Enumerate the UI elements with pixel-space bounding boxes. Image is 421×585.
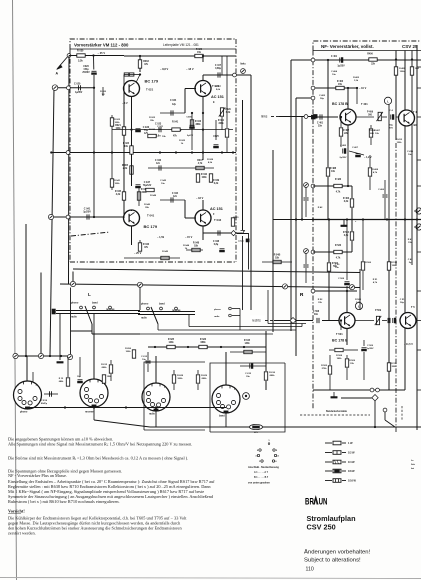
svg-text:0,68µ: 0,68µ bbox=[215, 68, 221, 70]
svg-text:P 409: P 409 bbox=[367, 111, 374, 114]
svg-text:BR: BR bbox=[305, 496, 314, 507]
svg-text:1/2 W: 1/2 W bbox=[348, 452, 355, 455]
svg-text:R 410: R 410 bbox=[369, 129, 376, 132]
svg-text:NF- Ververstärker, vollst.: NF- Ververstärker, vollst. bbox=[321, 44, 374, 49]
svg-text:~ 1,2 V: ~ 1,2 V bbox=[364, 156, 372, 159]
svg-text:1 W: 1 W bbox=[348, 442, 353, 445]
svg-text:10n: 10n bbox=[335, 267, 339, 269]
svg-text:120k: 120k bbox=[168, 342, 174, 344]
svg-text:R 043: R 043 bbox=[143, 243, 150, 246]
svg-text:R 408: R 408 bbox=[372, 168, 379, 171]
svg-text:~ 25 V: ~ 25 V bbox=[134, 252, 142, 255]
svg-text:12µ: 12µ bbox=[172, 104, 177, 106]
svg-text:3: 3 bbox=[234, 389, 235, 391]
svg-text:C 048: C 048 bbox=[213, 240, 220, 243]
svg-text:R 489: R 489 bbox=[399, 67, 406, 70]
svg-text:L: L bbox=[387, 99, 389, 103]
svg-text:C 508: C 508 bbox=[338, 278, 345, 280]
svg-text:C 406: C 406 bbox=[378, 188, 385, 191]
svg-text:C E10: C E10 bbox=[41, 400, 48, 402]
svg-text:Änderungen vorbehalten!: Änderungen vorbehalten! bbox=[304, 549, 371, 556]
svg-text:C 407: C 407 bbox=[352, 146, 359, 149]
svg-text:C 042: C 042 bbox=[160, 179, 167, 182]
svg-text:phono: phono bbox=[141, 303, 149, 306]
svg-text:Vorsicht!: Vorsicht! bbox=[8, 509, 25, 514]
svg-text:AC 151: AC 151 bbox=[211, 95, 224, 99]
svg-text:3,3k: 3,3k bbox=[78, 60, 83, 63]
svg-text:C 401: C 401 bbox=[331, 55, 338, 58]
svg-text:R 512: R 512 bbox=[391, 262, 398, 264]
svg-text:R 508: R 508 bbox=[336, 355, 343, 357]
svg-text:680k: 680k bbox=[270, 375, 276, 377]
svg-text:12n: 12n bbox=[156, 163, 161, 165]
svg-text:Leiterplatte VM 121 - 081: Leiterplatte VM 121 - 081 bbox=[163, 43, 199, 47]
svg-text:C005: C005 bbox=[186, 117, 192, 119]
svg-text:33n: 33n bbox=[246, 376, 250, 378]
svg-text:NF - Vorverstärker Plus an Ma: NF - Vorverstärker Plus an Masse. bbox=[8, 473, 67, 478]
svg-text:10n: 10n bbox=[142, 359, 146, 361]
svg-text:R 025: R 025 bbox=[179, 140, 186, 142]
svg-text:182k: 182k bbox=[337, 358, 343, 360]
svg-text:3: 3 bbox=[164, 387, 165, 389]
svg-text:band: band bbox=[159, 303, 165, 306]
svg-text:120k: 120k bbox=[400, 71, 406, 73]
svg-text:C 404: C 404 bbox=[331, 70, 338, 73]
svg-text:2µ/35V: 2µ/35V bbox=[340, 157, 348, 159]
svg-text:1: 1 bbox=[84, 383, 85, 385]
svg-text:R 023: R 023 bbox=[114, 119, 121, 121]
svg-text:R 045: R 045 bbox=[162, 250, 169, 253]
svg-text:680k: 680k bbox=[202, 378, 208, 380]
svg-text:~ 11,5 V: ~ 11,5 V bbox=[404, 343, 413, 346]
svg-text:1/16 W: 1/16 W bbox=[348, 480, 357, 483]
svg-text:270k: 270k bbox=[322, 368, 328, 370]
svg-text:C 410: C 410 bbox=[407, 150, 414, 153]
svg-text:25/30V: 25/30V bbox=[82, 72, 90, 74]
svg-text:R 42: R 42 bbox=[318, 206, 323, 209]
svg-text:C 044: C 044 bbox=[172, 192, 179, 195]
svg-text:100k: 100k bbox=[115, 122, 121, 124]
svg-text:CSV 25: CSV 25 bbox=[402, 44, 418, 49]
svg-text:reserve: reserve bbox=[172, 309, 181, 312]
svg-text:R 504: R 504 bbox=[343, 231, 350, 234]
svg-text:~ 18 V: ~ 18 V bbox=[196, 197, 204, 200]
svg-text:zerstört werden.: zerstört werden. bbox=[8, 531, 36, 536]
svg-text:Bandunterkontakte: Bandunterkontakte bbox=[326, 410, 348, 413]
svg-text:reserve: reserve bbox=[85, 411, 94, 414]
svg-text:~ 4 V: ~ 4 V bbox=[122, 102, 128, 105]
svg-text:10n: 10n bbox=[332, 74, 336, 76]
svg-text:100k: 100k bbox=[201, 177, 207, 179]
svg-text:band: band bbox=[219, 415, 225, 418]
svg-text:R 51: R 51 bbox=[373, 279, 378, 281]
svg-text:R 505: R 505 bbox=[321, 365, 328, 367]
svg-text:2,2k: 2,2k bbox=[116, 194, 121, 196]
svg-text:Subject to alterations!: Subject to alterations! bbox=[304, 558, 361, 564]
svg-text:70µ/12V: 70µ/12V bbox=[143, 185, 152, 187]
svg-text:T 041: T 041 bbox=[147, 214, 155, 218]
svg-text:C 020: C 020 bbox=[74, 83, 81, 86]
svg-text:33n: 33n bbox=[314, 314, 319, 316]
svg-text:330k: 330k bbox=[141, 192, 147, 194]
svg-text:C 615: C 615 bbox=[245, 373, 252, 375]
svg-text:T 5: T 5 bbox=[411, 305, 415, 309]
svg-text:R 426: R 426 bbox=[335, 178, 342, 181]
svg-text:0µ/CV: 0µ/CV bbox=[187, 135, 194, 137]
svg-text:10n: 10n bbox=[158, 129, 162, 131]
svg-text:0,8µ: 0,8µ bbox=[214, 244, 219, 246]
svg-text:C 021: C 021 bbox=[157, 126, 164, 128]
svg-text:C 42: C 42 bbox=[408, 258, 413, 261]
svg-text:680k: 680k bbox=[102, 367, 108, 369]
svg-text:BC 179: BC 179 bbox=[144, 224, 158, 229]
svg-text:A 1 . . . . . A 7: A 1 . . . . . A 7 bbox=[254, 471, 269, 474]
svg-text:~ 8,8 V: ~ 8,8 V bbox=[160, 67, 169, 71]
svg-text:radio: radio bbox=[71, 316, 77, 319]
svg-text:1/4 W: 1/4 W bbox=[348, 461, 355, 464]
svg-text:R 048: R 048 bbox=[193, 242, 200, 245]
svg-text:von unten gesehen: von unten gesehen bbox=[248, 482, 270, 485]
svg-text:R 626: R 626 bbox=[200, 339, 207, 341]
svg-text:T 501: T 501 bbox=[336, 332, 343, 336]
svg-text:T 401: T 401 bbox=[361, 102, 368, 106]
svg-text:C 107: C 107 bbox=[215, 65, 222, 67]
svg-text:T 021: T 021 bbox=[146, 87, 154, 91]
svg-text:150µ: 150µ bbox=[83, 69, 89, 71]
svg-text:C 405: C 405 bbox=[319, 94, 326, 97]
svg-text:4,7k: 4,7k bbox=[198, 162, 203, 165]
svg-text:T 042: T 042 bbox=[214, 218, 222, 222]
svg-text:1: 1 bbox=[146, 387, 147, 389]
svg-text:R 41: R 41 bbox=[408, 238, 413, 241]
svg-text:25V: 25V bbox=[389, 128, 393, 130]
svg-text:Stromlaufplan: Stromlaufplan bbox=[307, 514, 356, 523]
svg-text:120k: 120k bbox=[392, 265, 398, 267]
svg-text:Ruhestrom ( bei x ) mit R610 b: Ruhestrom ( bei x ) mit R610 bzw R710 no… bbox=[8, 499, 120, 504]
svg-text:9047p: 9047p bbox=[41, 402, 48, 405]
svg-text:L: L bbox=[88, 292, 91, 297]
svg-text:140k: 140k bbox=[244, 342, 250, 345]
svg-text:R 656: R 656 bbox=[125, 348, 132, 350]
svg-text:3,3k: 3,3k bbox=[344, 235, 349, 237]
svg-text:R 412: R 412 bbox=[396, 138, 403, 141]
svg-text:AC 151: AC 151 bbox=[210, 207, 223, 211]
svg-text:C E47: C E47 bbox=[144, 181, 151, 184]
svg-text:100k: 100k bbox=[115, 183, 121, 185]
svg-text:100k: 100k bbox=[126, 351, 132, 353]
svg-text:R 405: R 405 bbox=[353, 76, 360, 79]
svg-text:R 048: R 048 bbox=[150, 194, 157, 197]
svg-text:R 031: R 031 bbox=[218, 120, 225, 122]
svg-text:R 488: R 488 bbox=[330, 167, 337, 170]
svg-text:10n: 10n bbox=[161, 183, 165, 185]
svg-text:380k: 380k bbox=[195, 124, 201, 126]
svg-text:R 406: R 406 bbox=[343, 197, 350, 200]
svg-text:1: 1 bbox=[216, 389, 217, 391]
svg-text:R 629: R 629 bbox=[201, 375, 208, 377]
svg-text:R 616: R 616 bbox=[269, 372, 276, 374]
svg-text:R 407: R 407 bbox=[374, 129, 381, 132]
svg-text:phono: phono bbox=[71, 302, 79, 305]
svg-text:R 628: R 628 bbox=[177, 375, 184, 377]
svg-text:R 005: R 005 bbox=[122, 165, 129, 167]
svg-text:Vorverstärker VM 112 - 800: Vorverstärker VM 112 - 800 bbox=[74, 43, 129, 48]
svg-text:UN: UN bbox=[319, 496, 328, 507]
svg-text:R 044: R 044 bbox=[183, 244, 190, 247]
svg-text:links: links bbox=[261, 115, 268, 119]
svg-text:1µ/25V: 1µ/25V bbox=[83, 211, 91, 214]
svg-text:70µ: 70µ bbox=[144, 130, 149, 132]
svg-text:120k: 120k bbox=[397, 142, 403, 144]
svg-text:~ 15 V: ~ 15 V bbox=[185, 236, 193, 239]
svg-text:phono: phono bbox=[20, 411, 28, 414]
svg-text:R 049: R 049 bbox=[213, 179, 220, 182]
svg-text:330k: 330k bbox=[218, 123, 224, 125]
svg-text:3: 3 bbox=[36, 385, 37, 387]
svg-text:R 028: R 028 bbox=[207, 159, 214, 161]
svg-text:R 040: R 040 bbox=[144, 203, 151, 206]
svg-text:C 50: C 50 bbox=[335, 264, 340, 266]
svg-text:radio: radio bbox=[149, 413, 155, 416]
svg-text:volum: volum bbox=[238, 241, 244, 243]
svg-text:C 034: C 034 bbox=[170, 99, 177, 102]
svg-text:6,2k: 6,2k bbox=[226, 112, 231, 114]
svg-text:R 022: R 022 bbox=[149, 117, 156, 119]
svg-text:R 625: R 625 bbox=[168, 339, 175, 341]
svg-text:C 043: C 043 bbox=[155, 159, 162, 162]
svg-text:band: band bbox=[92, 302, 98, 305]
svg-text:4,7k: 4,7k bbox=[336, 257, 341, 260]
svg-text:~ 1,59: ~ 1,59 bbox=[157, 236, 165, 239]
svg-text:4,7k: 4,7k bbox=[336, 191, 341, 194]
svg-text:B 1 . . . . . B 7: B 1 . . . . . B 7 bbox=[254, 477, 269, 479]
svg-text:110: 110 bbox=[306, 566, 314, 572]
svg-text:R 106: R 106 bbox=[195, 121, 202, 123]
svg-text:R 615: R 615 bbox=[244, 340, 251, 342]
svg-text:BC 178 B: BC 178 B bbox=[332, 102, 348, 106]
svg-text:R 042: R 042 bbox=[201, 173, 208, 176]
svg-text:R 612: R 612 bbox=[101, 364, 108, 366]
svg-text:links: links bbox=[240, 63, 246, 66]
svg-text:R 041: R 041 bbox=[172, 121, 179, 124]
svg-text:P029: P029 bbox=[225, 109, 231, 111]
svg-text:R047: R047 bbox=[197, 159, 203, 162]
svg-text:C 482: C 482 bbox=[340, 144, 347, 147]
svg-text:R406: R406 bbox=[367, 53, 373, 56]
svg-text:P 509: P 509 bbox=[375, 310, 382, 312]
svg-text:R 503: R 503 bbox=[355, 299, 362, 301]
svg-text:680k: 680k bbox=[200, 342, 206, 344]
svg-text:R 403: R 403 bbox=[337, 80, 344, 83]
svg-text:BC 179: BC 179 bbox=[145, 79, 159, 84]
svg-text:radio: radio bbox=[141, 317, 147, 320]
svg-text:R 041: R 041 bbox=[114, 179, 121, 182]
svg-text:R031: R031 bbox=[233, 217, 239, 219]
svg-text:500k: 500k bbox=[178, 378, 184, 380]
svg-text:C 509: C 509 bbox=[367, 345, 374, 347]
svg-text:R 402: R 402 bbox=[343, 129, 350, 132]
svg-text:C026: C026 bbox=[83, 66, 89, 68]
svg-text:R 511: R 511 bbox=[391, 363, 397, 365]
svg-text:R 045: R 045 bbox=[115, 190, 122, 193]
svg-text:R 026: R 026 bbox=[196, 49, 203, 51]
svg-text:BC 178 B: BC 178 B bbox=[332, 339, 348, 343]
svg-text:1/8 W: 1/8 W bbox=[348, 470, 355, 473]
svg-text:C 612: C 612 bbox=[141, 356, 148, 358]
svg-text:radio: radio bbox=[214, 316, 220, 318]
svg-text:reserve: reserve bbox=[106, 308, 115, 311]
svg-text:6,2k: 6,2k bbox=[214, 183, 219, 185]
svg-text:bei: bei bbox=[411, 468, 415, 470]
svg-text:phono: phono bbox=[214, 309, 221, 311]
svg-text:C 508: C 508 bbox=[313, 311, 320, 313]
svg-text:R 506: R 506 bbox=[365, 262, 372, 264]
svg-text:3,3k: 3,3k bbox=[344, 201, 349, 203]
svg-text:CSV 250: CSV 250 bbox=[307, 523, 336, 532]
svg-text:Anschluß - Steckerfassung: Anschluß - Steckerfassung bbox=[248, 466, 279, 469]
svg-text:R021: R021 bbox=[115, 125, 121, 127]
svg-text:1µ/35V: 1µ/35V bbox=[75, 92, 83, 94]
svg-text:1µ/25V: 1µ/25V bbox=[337, 66, 345, 68]
svg-text:1µ/35V: 1µ/35V bbox=[367, 348, 375, 350]
svg-text:R 52: R 52 bbox=[318, 299, 323, 301]
svg-text:C 51: C 51 bbox=[400, 299, 405, 301]
svg-text:R 526: R 526 bbox=[335, 245, 342, 247]
svg-text:R 024: R 024 bbox=[123, 142, 130, 145]
svg-text:220k: 220k bbox=[392, 366, 398, 368]
svg-text:Sch: Sch bbox=[411, 464, 416, 466]
svg-text:10n: 10n bbox=[408, 154, 412, 156]
svg-text:C 027: C 027 bbox=[215, 86, 222, 88]
svg-text:R033: R033 bbox=[143, 61, 149, 63]
svg-text:12n: 12n bbox=[173, 196, 178, 198]
svg-text:C 401: C 401 bbox=[317, 122, 324, 125]
svg-text:~ 25 V: ~ 25 V bbox=[98, 51, 106, 55]
svg-text:R 509: R 509 bbox=[349, 360, 356, 362]
svg-text:R 030: R 030 bbox=[77, 50, 84, 53]
svg-text:~ 10 V: ~ 10 V bbox=[359, 87, 367, 90]
svg-text:R 04B: R 04B bbox=[274, 254, 281, 257]
svg-text:~ 18 V: ~ 18 V bbox=[186, 67, 194, 71]
svg-text:6,8n: 6,8n bbox=[156, 136, 161, 138]
svg-text:rechts: rechts bbox=[252, 319, 261, 323]
svg-text:33n: 33n bbox=[318, 126, 323, 128]
svg-text:1: 1 bbox=[18, 385, 19, 387]
